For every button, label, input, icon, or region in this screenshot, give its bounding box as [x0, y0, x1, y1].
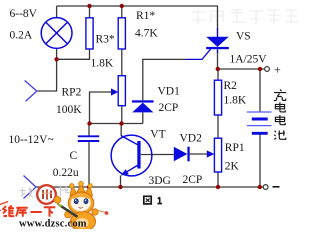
junction dot battery - rail [258, 185, 262, 189]
label 电 (1) [275, 102, 285, 112]
capacitor C plates [78, 136, 99, 141]
svg-text:RP1: RP1 [225, 142, 245, 154]
wire RP2 bottom lead [121, 106, 123, 124]
diode VD1 [132, 100, 154, 112]
svg-text:VS: VS [236, 31, 251, 43]
junction dot top rail R3 [87, 4, 91, 8]
diode VD2 [174, 147, 190, 162]
watermark mascot [54, 181, 108, 231]
wire gate net VD1 top to VS gate [143, 59, 186, 100]
wire VD2 cathode to RP1 wiper [190, 153, 208, 155]
junction dot battery + [258, 67, 262, 71]
svg-text:1A/25V: 1A/25V [230, 54, 268, 66]
svg-text:2K: 2K [225, 161, 240, 173]
junction dot node A left [87, 121, 91, 125]
svg-text:10--12V~: 10--12V~ [9, 134, 54, 146]
svg-text:3DG: 3DG [149, 175, 171, 187]
AC terminal 1 [25, 81, 37, 102]
resistor R2 [214, 80, 221, 115]
watermark 维库一下 red text [3, 205, 55, 217]
wire AC terminal 1 to lamp bottom node [37, 59, 57, 91]
svg-text:R2: R2 [224, 80, 238, 92]
wire top rail from lamp to VS anode corner [57, 6, 218, 29]
potentiometer RP1 [214, 138, 221, 172]
svg-text:1.8K: 1.8K [224, 95, 247, 107]
wire VD1 anode lead [142, 112, 144, 123]
wire R3 top lead [89, 6, 91, 18]
label 池 [274, 130, 286, 139]
transistor VT [111, 135, 152, 176]
watermark outlined 片 [61, 185, 71, 196]
svg-text:0.2A: 0.2A [10, 30, 33, 42]
svg-text:2CP: 2CP [159, 102, 179, 114]
wire bottom rail [36, 186, 263, 188]
watermark outlined 找 [20, 187, 34, 198]
battery GB plates [247, 112, 272, 133]
svg-text:RP2: RP2 [62, 87, 82, 99]
AC terminal 2 [24, 176, 37, 199]
watermark red speed lines [0, 202, 9, 211]
svg-text:1.8K: 1.8K [91, 58, 114, 70]
svg-text:VD1: VD1 [158, 86, 181, 98]
junction dot node A right [119, 121, 123, 125]
wire capacitor C bottom lead [88, 142, 90, 187]
svg-text:VD2: VD2 [180, 133, 203, 145]
junction dot top rail R1 [120, 4, 124, 8]
wire node A to VD1 anode [90, 123, 143, 125]
svg-text:R1*: R1* [136, 10, 155, 22]
wire R2 top lead [217, 69, 219, 80]
resistor R1 [118, 18, 125, 49]
lamp EL [41, 18, 72, 49]
junction dot lamp bottom [54, 57, 58, 61]
watermark faint text 实用电子制作 [192, 9, 298, 25]
svg-text:4.7K: 4.7K [135, 28, 158, 40]
thyristor VS [186, 28, 229, 59]
svg-text:C: C [70, 150, 78, 162]
label - [273, 186, 280, 188]
junction dot VS cathode node B [216, 67, 220, 71]
potentiometer RP2 [118, 76, 125, 106]
label 充 (charging battery text) [274, 90, 287, 101]
wire battery bottom lead [259, 134, 261, 188]
watermark 维库一下 white halo [3, 205, 55, 217]
label 图1 caption [144, 196, 162, 204]
wire battery top lead [259, 69, 261, 112]
wire VT base to VD2 anode [141, 154, 174, 156]
wire RP2 wiper to node A [90, 92, 112, 124]
svg-text:2CP: 2CP [183, 174, 203, 186]
wire lamp bottom to R3 bottom [57, 49, 90, 59]
wire R1 top lead [121, 6, 123, 18]
wire lamp top lead [56, 6, 58, 18]
svg-text:100K: 100K [56, 104, 82, 116]
svg-text:0.22u: 0.22u [53, 167, 79, 179]
junction dot emitter rail [118, 185, 122, 189]
wire capacitor C top lead [88, 124, 90, 136]
junction dot cap bottom rail [87, 185, 91, 189]
wire VT emitter lead [120, 176, 122, 188]
junction dot RP1 rail [216, 185, 220, 189]
label 电 (2) [275, 115, 285, 125]
wire node B to + terminal [218, 68, 265, 70]
VT emitter arrow [121, 169, 129, 175]
svg-text:+: + [274, 63, 281, 77]
resistor R3 [86, 18, 93, 49]
watermark red circle logo [37, 185, 56, 204]
wire lamp bottom lead [56, 48, 58, 59]
svg-text:R3*: R3* [96, 34, 115, 46]
wire R1 bottom to RP2 top [121, 49, 123, 76]
terminal - circle [263, 185, 268, 190]
wire VT collector lead [120, 124, 122, 137]
wire RP1 bottom lead [217, 172, 219, 187]
RP2 wiper arrow [111, 88, 118, 95]
svg-text:6--8V: 6--8V [10, 8, 38, 20]
terminal + circle [265, 67, 270, 72]
svg-text:VT: VT [150, 128, 165, 140]
wire R2 bottom to RP1 top [217, 115, 219, 138]
RP1 wiper arrow [207, 150, 215, 157]
svg-text:www.dzsc.com: www.dzsc.com [19, 218, 87, 229]
wire VS cathode to node B [217, 52, 219, 69]
